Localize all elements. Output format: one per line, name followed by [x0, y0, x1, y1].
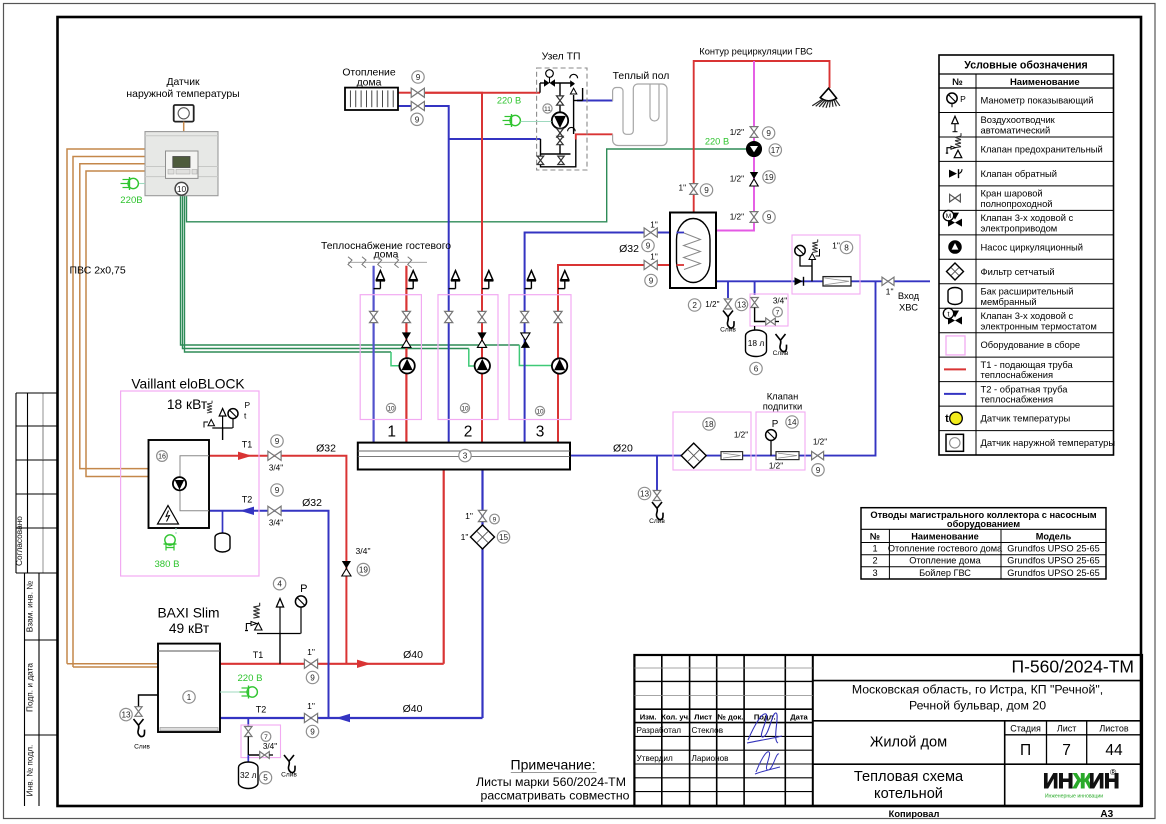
floor unit drain valve mid [558, 156, 564, 164]
svg-text:220В: 220В [120, 195, 142, 206]
svg-text:полнопроходной: полнопроходной [981, 198, 1053, 209]
ball valve riser 1 [370, 311, 378, 322]
id circle 7a [773, 297, 788, 317]
id circle 9 rad return [411, 113, 423, 125]
cable ПВС to BAXI wire 1 [67, 149, 145, 664]
Vaillant warning triangle [158, 506, 179, 525]
cable ПВС to BAXI wire 2 [73, 157, 145, 668]
ball valve riser 3 [445, 311, 453, 322]
left strip approval rows [16, 393, 58, 573]
svg-text:Слив: Слив [281, 772, 297, 779]
flow arrow T2 Vaillant [240, 507, 254, 515]
legend col headers [952, 77, 1079, 88]
svg-text:2: 2 [692, 301, 697, 310]
legend symbol check valve [949, 169, 962, 178]
svg-text:1": 1" [465, 511, 473, 521]
svg-text:15: 15 [499, 533, 509, 542]
reducer 14 [776, 452, 799, 460]
label Ø32 T2v [302, 497, 322, 509]
signature Ларионов [755, 752, 780, 774]
svg-text:Ø32: Ø32 [619, 243, 639, 255]
legend symbol pump [949, 241, 961, 253]
ball valve Vaillant T2 [242, 484, 283, 528]
gauge 14 [766, 416, 799, 456]
pump table grid [861, 508, 1106, 579]
legend row texts [981, 95, 1116, 449]
svg-text:Разработал: Разработал [637, 726, 682, 735]
label BAXI Slim [157, 606, 219, 621]
pipe T2 Ø40 BAXI [220, 717, 483, 719]
id circle 16 [157, 451, 168, 462]
svg-text:П: П [1020, 742, 1031, 759]
safety valve group 8 [795, 239, 820, 281]
svg-text:Тепловая схема: Тепловая схема [854, 769, 964, 785]
filter 15 [461, 525, 510, 549]
label Ø40 T2 [403, 703, 423, 715]
svg-text:220 В: 220 В [237, 673, 262, 684]
label Ø32 T1v [316, 442, 336, 454]
label А3 [1100, 809, 1113, 820]
svg-text:дома: дома [357, 77, 382, 88]
svg-text:9: 9 [416, 73, 421, 82]
svg-text:Бак расширительный: Бак расширительный [981, 285, 1074, 296]
check valve circuit 1 [402, 332, 411, 347]
svg-text:1/2": 1/2" [705, 300, 719, 309]
svg-text:P: P [300, 583, 307, 595]
svg-text:5: 5 [263, 774, 268, 783]
svg-text:Ø40: Ø40 [403, 649, 423, 661]
svg-text:1/2": 1/2" [730, 128, 744, 137]
svg-text:Кран шаровой: Кран шаровой [981, 188, 1043, 199]
svg-text:Клапан обратный: Клапан обратный [981, 168, 1057, 179]
ball valve manifold T2 (9) [465, 510, 499, 523]
svg-text:№ док.: № док. [717, 712, 743, 721]
valve 7 horizontal [260, 752, 273, 759]
exp tank 18l stem [754, 326, 756, 330]
svg-text:Стеклов: Стеклов [692, 726, 724, 735]
svg-text:1": 1" [461, 532, 469, 542]
svg-text:9: 9 [816, 466, 821, 475]
valve 7a vertical [751, 298, 758, 308]
svg-text:9: 9 [275, 437, 280, 446]
svg-text:Grundfos UPSO 25-65: Grundfos UPSO 25-65 [1007, 568, 1099, 578]
svg-text:Grundfos UPSO 25-65: Grundfos UPSO 25-65 [1007, 556, 1099, 566]
legend symbol T2 pipe [944, 393, 966, 395]
ball valve tank T1 in [644, 253, 658, 287]
svg-text:Ø32: Ø32 [302, 497, 322, 509]
svg-text:Теплый пол: Теплый пол [613, 71, 670, 82]
ball valve radiator return [411, 101, 424, 110]
ball valve makeup drain (13) [638, 487, 660, 500]
flow arrow T2 main [336, 714, 350, 722]
Vaillant boiler body [149, 440, 210, 528]
svg-text:электроприводом: электроприводом [981, 222, 1058, 233]
label Теплый пол [613, 71, 670, 82]
svg-text:И: И [1043, 769, 1058, 793]
legend symbol safety valve [946, 133, 962, 158]
pipe T2 main riser from manifold [481, 470, 483, 719]
svg-text:Насос циркуляционный: Насос циркуляционный [981, 241, 1084, 252]
ball valve recirc top (9) [730, 127, 775, 140]
id circle 5 [259, 772, 271, 784]
assembly box circuit 2 [438, 295, 498, 420]
valve 7 vertical [245, 727, 252, 737]
shower symbol [812, 88, 840, 108]
check valve ХВС [795, 277, 804, 286]
pipe 7 [248, 737, 259, 763]
check valve circuit 3 (blue) [521, 333, 530, 348]
svg-text:2: 2 [872, 556, 877, 566]
air vent riser 6 [558, 271, 569, 289]
ball valve tank top (9) [679, 184, 713, 197]
svg-text:8: 8 [844, 243, 849, 252]
check valve circuit 2 [477, 332, 486, 347]
pipe radiator supply [398, 92, 411, 94]
id circle 10 controller [175, 182, 188, 195]
svg-text:Слив: Слив [134, 744, 150, 751]
object name Жилой дом [870, 734, 947, 750]
svg-text:P: P [772, 419, 779, 430]
reducer 18 [721, 452, 743, 460]
svg-text:3/4": 3/4" [356, 546, 371, 556]
ball valve tank T2 in [642, 221, 658, 252]
svg-text:3/4": 3/4" [773, 297, 787, 306]
drain hook near 6 [773, 334, 789, 357]
left strip inventory columns [25, 573, 58, 806]
pump table headers [870, 532, 1072, 542]
flow arrow T1 main [357, 660, 371, 668]
drain hook BAXI right [281, 755, 297, 779]
title block grid left [634, 655, 1142, 806]
svg-text:9: 9 [646, 241, 651, 250]
note line 1 [476, 775, 626, 789]
svg-text:7: 7 [1062, 742, 1071, 759]
svg-text:Vaillant eloBLOCK: Vaillant eloBLOCK [131, 377, 245, 392]
svg-text:Ø40: Ø40 [403, 703, 423, 715]
svg-text:№: № [870, 532, 880, 542]
svg-text:Отопление дома: Отопление дома [909, 556, 981, 566]
stage values [1020, 742, 1123, 759]
title block left labels [637, 712, 809, 763]
air vent riser 1 [374, 271, 385, 289]
controller unit [145, 132, 218, 196]
floor unit 3-way valve [544, 70, 555, 87]
pipe T1 riser house heating [425, 93, 482, 443]
svg-text:11: 11 [544, 106, 551, 113]
wire to recirculation pump 17 [187, 149, 747, 222]
label 220V recirc [705, 136, 729, 146]
air vent riser 4 [482, 271, 493, 289]
ball valve makeup (9) [812, 438, 828, 476]
svg-text:котельной: котельной [874, 786, 943, 802]
pipe T2 riser boiler ГВС [525, 233, 670, 443]
id circle 6 [750, 362, 762, 374]
svg-text:3: 3 [536, 423, 545, 440]
id circle 18 [703, 418, 748, 440]
pump table rows [872, 544, 1099, 578]
svg-text:П-560/2024-ТМ: П-560/2024-ТМ [1012, 656, 1135, 676]
svg-text:Наименование: Наименование [1010, 77, 1080, 88]
note line 2 [481, 789, 630, 803]
guest house label [321, 240, 451, 260]
svg-text:Т1 - подающая труба: Т1 - подающая труба [981, 359, 1074, 370]
wire to pump circuit 1 [185, 196, 401, 366]
svg-text:автоматический: автоматический [981, 125, 1051, 136]
pipe T1 riser guest house [405, 266, 407, 443]
label Датчик наружной температуры [126, 77, 239, 100]
svg-text:Модель: Модель [1036, 532, 1072, 542]
svg-text:9: 9 [493, 516, 497, 523]
svg-text:9: 9 [766, 129, 771, 138]
plug 220V BAXI [220, 673, 263, 699]
id circle 4 [273, 578, 285, 590]
svg-text:Инв. № подл.: Инв. № подл. [25, 745, 35, 797]
svg-text:10: 10 [387, 405, 395, 412]
svg-text:1: 1 [872, 544, 877, 554]
ball valve BAXI T2 [256, 701, 319, 738]
assembly box 7a [750, 294, 788, 326]
legend symbol ball valve [950, 194, 961, 202]
title block grid right [813, 681, 1141, 806]
legend symbol assembled equipment [946, 336, 965, 355]
pipe break marks [348, 257, 427, 268]
pipe T1 riser boiler ГВС [558, 265, 670, 443]
Vaillant safety group [204, 400, 251, 440]
air vent riser 2 [406, 271, 417, 289]
svg-text:Контур рециркуляции ГВС: Контур рециркуляции ГВС [699, 47, 813, 57]
svg-text:1": 1" [886, 287, 894, 297]
label circuit 3 [536, 423, 545, 440]
svg-text:1/2": 1/2" [734, 431, 748, 440]
svg-text:3: 3 [463, 452, 468, 461]
svg-text:18 л: 18 л [748, 338, 765, 348]
svg-text:Стадия: Стадия [1010, 723, 1041, 733]
plug 380V [154, 528, 179, 570]
legend symbol expansion tank [948, 287, 962, 304]
Vaillant expansion tank [215, 511, 230, 552]
svg-text:Условные обозначения: Условные обозначения [964, 60, 1087, 72]
svg-text:3/4": 3/4" [269, 463, 283, 472]
filter 18 [681, 443, 706, 468]
svg-text:1/2": 1/2" [813, 438, 827, 447]
pipe floor heating return red [576, 134, 613, 139]
svg-text:Датчик температуры: Датчик температуры [981, 413, 1071, 424]
svg-text:Клапан предохранительный: Клапан предохранительный [981, 143, 1103, 154]
pipe T2 Ø32 Vaillant [209, 511, 329, 718]
ball valve drain 13a [705, 298, 747, 310]
svg-text:И: И [1089, 769, 1104, 793]
svg-text:1": 1" [650, 253, 658, 262]
note title [511, 757, 597, 773]
svg-text:13: 13 [737, 300, 747, 309]
doc number П-560/2024-ТМ [1012, 656, 1135, 676]
svg-text:рассматривать совместно: рассматривать совместно [481, 789, 630, 803]
project address line 1 [852, 682, 1103, 696]
legend symbol temperature sensor [945, 412, 962, 425]
cable ПВС to Vaillant wire 2 [86, 171, 149, 477]
svg-text:Н: Н [1058, 769, 1073, 793]
id circle 2 [688, 299, 700, 311]
drain hook 13 [649, 502, 665, 525]
legend title [964, 60, 1087, 72]
svg-text:№: № [952, 77, 963, 88]
svg-text:Вход: Вход [898, 290, 920, 301]
wire to pump circuit 3 [181, 196, 553, 366]
manifold collector (3) [358, 443, 570, 470]
floor unit bypass valve [570, 74, 578, 94]
svg-text:T1: T1 [253, 650, 264, 660]
floor heating coil [613, 84, 667, 146]
id circle 17 [769, 144, 781, 156]
svg-text:Согласовано: Согласовано [14, 516, 24, 566]
svg-text:9: 9 [704, 186, 709, 195]
svg-text:Ø20: Ø20 [613, 443, 633, 455]
pipe into floor unit red [425, 92, 540, 94]
svg-text:13: 13 [640, 489, 650, 498]
svg-text:Подп. и дата: Подп. и дата [25, 663, 35, 712]
svg-text:16: 16 [158, 454, 166, 461]
svg-text:7: 7 [776, 309, 780, 316]
drain hook 13a [720, 311, 736, 334]
svg-text:Слив: Слив [773, 350, 789, 357]
label 49 kW [169, 621, 210, 636]
pipe Ø20 makeup [570, 281, 876, 455]
legend table grid [939, 55, 1114, 455]
svg-text:1": 1" [307, 647, 315, 657]
floor heating unit dashed box [537, 68, 587, 170]
BAXI boiler body [158, 644, 220, 732]
label Ø40 T1 [403, 649, 423, 661]
BAXI drain left [120, 695, 158, 751]
legend symbol T1 pipe [944, 368, 966, 370]
svg-text:Воздухоотводчик: Воздухоотводчик [981, 114, 1056, 125]
id circle 11 [543, 104, 552, 113]
BAXI safety group [245, 583, 307, 664]
svg-text:1: 1 [387, 423, 396, 440]
pipe ГВС tank bottom out [716, 280, 930, 282]
svg-text:Grundfos UPSO 25-65: Grundfos UPSO 25-65 [1007, 544, 1099, 554]
id circle 10 circuit 1 [386, 403, 395, 412]
pipe T2 riser guest house [373, 266, 375, 443]
svg-text:Ларионов: Ларионов [692, 754, 729, 763]
logo ИНЖИН [1043, 767, 1120, 800]
label Ø32 tank [619, 243, 639, 255]
ball valve recirc bottom (9) [730, 211, 775, 223]
svg-text:Слив: Слив [649, 518, 665, 525]
svg-text:9: 9 [310, 727, 315, 736]
svg-text:7: 7 [264, 734, 268, 741]
svg-text:1": 1" [307, 701, 315, 711]
filter ХВС [823, 277, 851, 286]
legend symbol outdoor sensor [946, 434, 964, 451]
pipe T1 main riser to manifold [443, 470, 445, 664]
legend symbol air vent [952, 116, 959, 132]
air vent riser 5 [525, 271, 536, 289]
svg-text:18 кВт: 18 кВт [167, 397, 208, 412]
svg-text:Манометр показывающий: Манометр показывающий [981, 95, 1094, 106]
pipe drain branch 13 [656, 456, 658, 490]
radiator house heating [345, 88, 398, 110]
pump circuit 3 (10) [552, 358, 567, 373]
svg-text:T2: T2 [242, 495, 253, 505]
pipe radiator return [398, 105, 411, 107]
svg-text:220 В: 220 В [497, 96, 521, 106]
svg-text:Листов: Листов [1099, 723, 1128, 733]
svg-text:Лист: Лист [694, 712, 712, 721]
assembly box circuit 1 [360, 295, 421, 420]
svg-text:Изм.: Изм. [640, 712, 657, 721]
svg-text:13: 13 [121, 711, 131, 720]
svg-text:T1: T1 [242, 440, 253, 450]
svg-text:Лист: Лист [1057, 723, 1077, 733]
svg-text:наружной температуры: наружной температуры [126, 89, 239, 100]
label Ø20 [613, 443, 633, 455]
svg-text:Датчик: Датчик [166, 77, 200, 88]
pipe T1 Ø32 Vaillant [209, 456, 346, 664]
svg-text:Московская область, го Истра,: Московская область, го Истра, КП "Речной… [852, 682, 1103, 696]
pipe floor heating supply blue [577, 100, 613, 102]
svg-text:Ø32: Ø32 [316, 442, 336, 454]
svg-text:9: 9 [415, 115, 420, 124]
svg-text:380 В: 380 В [154, 559, 179, 570]
svg-text:мембранный: мембранный [981, 296, 1037, 307]
svg-text:t: t [948, 311, 950, 318]
legend symbol strainer [947, 263, 964, 280]
label circuit 1 [387, 423, 396, 440]
legend symbol 3-way thermostat valve [943, 308, 962, 324]
ball valve riser 5 [521, 311, 529, 322]
svg-text:9: 9 [275, 486, 280, 495]
ball valve riser 4 [478, 311, 486, 322]
svg-text:4: 4 [277, 580, 282, 589]
svg-text:Кол. уч.: Кол. уч. [661, 712, 690, 721]
svg-text:9: 9 [649, 276, 654, 285]
label Вход ХВС [898, 290, 920, 313]
svg-text:3/4": 3/4" [269, 518, 283, 527]
label Копировал [889, 809, 940, 819]
pump circuit 1 (10) [399, 358, 414, 373]
label 1/2 14 [769, 462, 783, 471]
svg-text:ПВС 2x0,75: ПВС 2x0,75 [70, 265, 126, 277]
svg-text:6: 6 [754, 364, 759, 373]
pipe drain 13a [727, 281, 729, 298]
assembly box 14 [756, 412, 805, 470]
label Клапан подпитки [763, 390, 803, 411]
svg-text:t: t [945, 413, 949, 425]
Vaillant pump [173, 477, 186, 490]
svg-text:1": 1" [650, 221, 658, 230]
wire plug to pump 11 [521, 121, 552, 123]
svg-text:дома: дома [374, 249, 399, 260]
svg-text:1/2": 1/2" [730, 175, 744, 184]
pipe recirculation red top [694, 61, 830, 213]
labels box 8 [832, 241, 853, 254]
assembly box Vaillant [121, 391, 259, 576]
plug 220V controller [120, 177, 145, 206]
ball valve riser 6 [554, 311, 562, 322]
svg-text:1/2": 1/2" [730, 213, 744, 222]
id circle 7 [261, 732, 277, 751]
assembly box 7 [241, 725, 281, 758]
svg-text:Клапан 3-х ходовой с: Клапан 3-х ходовой с [981, 212, 1074, 223]
id circle 10 circuit 3 [535, 406, 544, 415]
svg-text:Жилой дом: Жилой дом [870, 734, 947, 750]
svg-text:220 В: 220 В [705, 136, 729, 146]
project address line 2 [909, 699, 1046, 713]
assembly box circuit 3 [509, 295, 571, 420]
svg-text:1/2": 1/2" [769, 462, 783, 471]
svg-text:1": 1" [679, 184, 687, 193]
